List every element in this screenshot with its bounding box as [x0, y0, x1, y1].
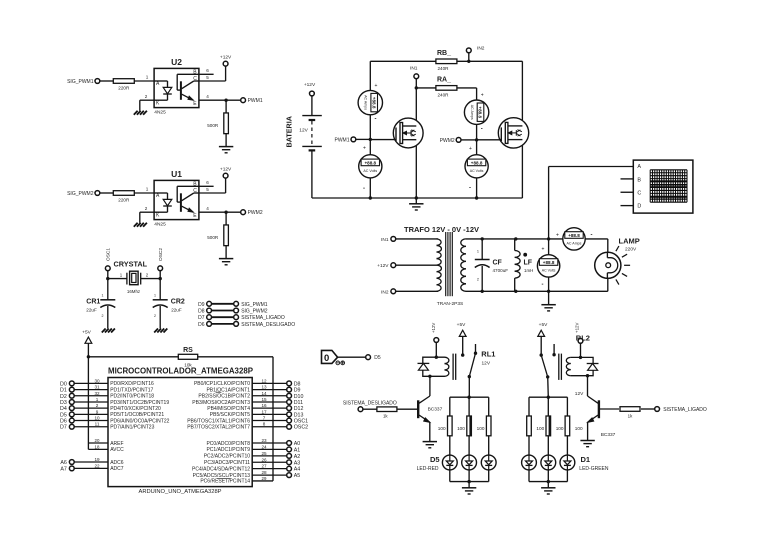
svg-text:A6: A6	[60, 460, 67, 466]
svg-text:C: C	[637, 190, 641, 196]
svg-text:PD4/T0/XCK/PCINT20: PD4/T0/XCK/PCINT20	[110, 406, 161, 412]
svg-text:+12V: +12V	[575, 323, 580, 333]
svg-text:-: -	[375, 117, 377, 123]
svg-text:20: 20	[95, 438, 100, 443]
svg-text:CF: CF	[493, 260, 503, 267]
svg-text:LED-RED: LED-RED	[417, 466, 439, 472]
svg-text:4N25: 4N25	[154, 222, 166, 228]
svg-text:MICROCONTROLADOR_ATMEGA328P: MICROCONTROLADOR_ATMEGA328P	[108, 366, 254, 375]
svg-text:+: +	[556, 233, 559, 239]
svg-text:AC Amps: AC Amps	[567, 242, 582, 246]
svg-text:D7: D7	[198, 315, 205, 321]
svg-text:PC2/ADC2/PCINT10: PC2/ADC2/PCINT10	[204, 454, 251, 460]
svg-text:22uF: 22uF	[171, 308, 182, 313]
svg-text:PC0/ADC0/PCINT8: PC0/ADC0/PCINT8	[206, 441, 250, 447]
svg-text:IN1: IN1	[410, 66, 418, 72]
svg-text:1: 1	[154, 294, 156, 298]
svg-text:OSC1: OSC1	[294, 419, 308, 425]
svg-text:PB4/MISO/PCINT4: PB4/MISO/PCINT4	[207, 406, 250, 412]
svg-text:PC6/RESET/PCINT14: PC6/RESET/PCINT14	[200, 479, 250, 485]
svg-text:PB7/TOSC2/XTAL2/PCINT7: PB7/TOSC2/XTAL2/PCINT7	[187, 425, 250, 431]
svg-text:4: 4	[206, 94, 209, 99]
svg-text:0: 0	[324, 353, 329, 364]
svg-text:D1: D1	[60, 388, 67, 394]
svg-text:AC Amps: AC Amps	[364, 95, 368, 110]
svg-text:17: 17	[261, 409, 267, 414]
svg-text:2: 2	[477, 278, 479, 282]
svg-text:D6: D6	[198, 322, 205, 328]
svg-text:1k: 1k	[628, 413, 633, 418]
svg-text:240R: 240R	[438, 92, 450, 97]
svg-text:D9: D9	[294, 388, 301, 394]
svg-text:A4: A4	[294, 467, 301, 473]
svg-text:PB1/OC1A/PCINT1: PB1/OC1A/PCINT1	[206, 387, 250, 393]
svg-text:100: 100	[438, 426, 446, 431]
svg-text:SISTEMA_DESLIGADO: SISTEMA_DESLIGADO	[241, 322, 295, 328]
svg-text:ADC7: ADC7	[110, 466, 124, 472]
svg-text:PB2/SS/OC1B/PCINT2: PB2/SS/OC1B/PCINT2	[198, 394, 250, 400]
svg-text:22uF: 22uF	[86, 308, 97, 313]
svg-text:+: +	[542, 247, 545, 253]
svg-text:23: 23	[261, 438, 267, 443]
svg-text:U2: U2	[171, 57, 182, 67]
svg-text:CR2: CR2	[171, 299, 185, 306]
svg-text:PD0/RXD/PCINT16: PD0/RXD/PCINT16	[110, 381, 154, 387]
svg-text:PD5/T1/OC0B/PCINT21: PD5/T1/OC0B/PCINT21	[110, 412, 164, 418]
svg-text:LF: LF	[524, 260, 533, 267]
svg-text:+88.8: +88.8	[568, 233, 580, 238]
svg-text:PWM1: PWM1	[335, 137, 350, 143]
svg-text:22: 22	[94, 463, 100, 468]
svg-text:2: 2	[154, 314, 156, 318]
svg-text:A3: A3	[294, 460, 301, 466]
svg-text:D9: D9	[198, 302, 205, 308]
svg-text:A5: A5	[294, 473, 301, 479]
svg-text:OSC2: OSC2	[294, 425, 308, 431]
svg-text:220R: 220R	[118, 198, 130, 203]
svg-text:+12V: +12V	[220, 55, 232, 61]
svg-text:16Mhz: 16Mhz	[127, 289, 140, 294]
svg-text:25: 25	[261, 451, 267, 456]
svg-text:D7: D7	[60, 425, 67, 431]
svg-text:+88.8: +88.8	[364, 160, 376, 165]
svg-text:PC1/ADC1/PCINT9: PC1/ADC1/PCINT9	[206, 447, 250, 453]
svg-text:1k: 1k	[383, 414, 388, 419]
svg-text:100: 100	[457, 426, 465, 431]
svg-text:19: 19	[94, 457, 100, 462]
svg-text:BC337: BC337	[428, 406, 443, 412]
svg-text:A2: A2	[294, 454, 301, 460]
svg-text:RA_: RA_	[437, 77, 451, 84]
svg-text:32: 32	[94, 391, 100, 396]
svg-text:+12V: +12V	[220, 167, 232, 173]
svg-text:D5: D5	[374, 355, 381, 361]
svg-text:+: +	[363, 146, 366, 152]
svg-text:+: +	[481, 93, 484, 99]
svg-text:+88.8: +88.8	[478, 106, 483, 118]
svg-text:11: 11	[95, 422, 100, 427]
svg-text:PC3/ADC3/PCINT11: PC3/ADC3/PCINT11	[204, 460, 250, 466]
svg-text:9: 9	[96, 409, 99, 414]
svg-text:4: 4	[206, 206, 209, 211]
svg-text:PB6/TOSC1/XTAL1/PCINT6: PB6/TOSC1/XTAL1/PCINT6	[187, 418, 250, 424]
svg-text:D5: D5	[60, 412, 67, 418]
svg-text:SIG_PWM1: SIG_PWM1	[241, 302, 268, 308]
svg-text:1: 1	[146, 75, 149, 80]
svg-text:+: +	[469, 146, 472, 152]
svg-text:IN2: IN2	[381, 289, 389, 295]
svg-text:D10: D10	[294, 394, 304, 400]
svg-text:LAMP: LAMP	[619, 237, 640, 246]
svg-text:PB0/ICP1/CLKO/PCINT0: PB0/ICP1/CLKO/PCINT0	[194, 381, 250, 387]
svg-text:+5V: +5V	[539, 322, 548, 328]
svg-text:2: 2	[145, 94, 148, 99]
svg-text:-: -	[481, 127, 483, 133]
svg-text:26: 26	[261, 457, 267, 462]
svg-text:D4: D4	[60, 406, 67, 412]
svg-text:IN1: IN1	[381, 237, 389, 243]
svg-text:10: 10	[94, 416, 100, 421]
svg-text:+12V: +12V	[304, 82, 316, 88]
svg-text:31: 31	[94, 385, 100, 390]
svg-text:RL1: RL1	[481, 350, 495, 359]
svg-text:2: 2	[96, 403, 99, 408]
svg-text:PD2/INT0/PCINT18: PD2/INT0/PCINT18	[110, 394, 154, 400]
svg-text:4700uF: 4700uF	[493, 268, 509, 273]
svg-text:U1: U1	[171, 169, 182, 179]
svg-text:2: 2	[102, 314, 104, 318]
svg-text:D3: D3	[60, 400, 67, 406]
svg-text:5: 5	[206, 187, 209, 192]
svg-text:6: 6	[206, 68, 209, 73]
svg-text:+12V: +12V	[431, 323, 436, 333]
svg-text:220V: 220V	[625, 247, 637, 253]
svg-text:12V: 12V	[482, 360, 491, 366]
svg-text:1: 1	[146, 187, 149, 192]
svg-text:6: 6	[206, 180, 209, 185]
svg-text:A0: A0	[294, 441, 301, 447]
svg-text:A1: A1	[294, 447, 301, 453]
svg-text:SIG_PWM2: SIG_PWM2	[67, 191, 94, 197]
svg-text:1: 1	[477, 250, 479, 254]
svg-text:12: 12	[261, 378, 267, 383]
svg-text:PB3/MOSI/OC2A/PCINT3: PB3/MOSI/OC2A/PCINT3	[192, 400, 250, 406]
svg-text:D0: D0	[60, 381, 67, 387]
svg-text:ADC6: ADC6	[110, 460, 124, 466]
svg-text:D5: D5	[430, 455, 440, 464]
svg-text:240R: 240R	[438, 66, 450, 71]
svg-text:CR1: CR1	[86, 299, 100, 306]
svg-text:500R: 500R	[207, 123, 219, 128]
svg-text:AC Amps: AC Amps	[470, 105, 474, 120]
svg-text:RS: RS	[183, 347, 193, 354]
svg-text:29: 29	[262, 476, 267, 481]
svg-text:PWM1: PWM1	[248, 98, 263, 104]
svg-text:PWM2: PWM2	[440, 138, 455, 144]
svg-text:OSC2: OSC2	[158, 248, 164, 261]
svg-text:SIG_PWM2: SIG_PWM2	[241, 309, 268, 315]
svg-text:AVCC: AVCC	[110, 447, 124, 453]
svg-text:+88.8: +88.8	[543, 260, 555, 265]
svg-text:PD6/AIN0/OC0A/PCINT22: PD6/AIN0/OC0A/PCINT22	[110, 418, 169, 424]
svg-text:12V: 12V	[575, 391, 584, 397]
svg-text:PD7/AIN1/PCINT23: PD7/AIN1/PCINT23	[110, 425, 154, 431]
svg-text:TRAN-2P3S: TRAN-2P3S	[437, 301, 463, 307]
svg-text:TRAFO 12V - 0V -12V: TRAFO 12V - 0V -12V	[404, 225, 479, 234]
svg-text:+12V: +12V	[377, 263, 389, 269]
svg-text:A: A	[637, 164, 641, 170]
svg-text:15: 15	[261, 397, 267, 402]
svg-text:D2: D2	[60, 394, 67, 400]
svg-text:SISTEMA_DESLIGADO: SISTEMA_DESLIGADO	[343, 401, 397, 407]
svg-text:-: -	[469, 186, 471, 192]
svg-text:AC Volts: AC Volts	[542, 269, 556, 273]
svg-text:D8: D8	[294, 381, 301, 387]
svg-text:1: 1	[96, 397, 99, 402]
svg-text:PB5/SCK/PCINT5: PB5/SCK/PCINT5	[210, 412, 251, 418]
svg-text:100: 100	[477, 426, 485, 431]
svg-text:12V: 12V	[299, 127, 308, 133]
svg-text:AC Volts: AC Volts	[363, 169, 377, 173]
svg-text:+88.8: +88.8	[471, 160, 483, 165]
svg-text:OSC1: OSC1	[106, 248, 112, 261]
svg-text:16: 16	[261, 403, 267, 408]
svg-text:100: 100	[556, 426, 564, 431]
svg-text:-: -	[591, 233, 593, 239]
svg-text:ARDUINO_UNO_ATMEGA328P: ARDUINO_UNO_ATMEGA328P	[139, 489, 222, 495]
svg-text:4N25: 4N25	[154, 110, 166, 116]
svg-text:PD1/TXD/PCINT17: PD1/TXD/PCINT17	[110, 387, 153, 393]
svg-text:BATERIA: BATERIA	[285, 116, 294, 147]
svg-text:SISTEMA_LIGADO: SISTEMA_LIGADO	[663, 407, 707, 413]
svg-text:100: 100	[536, 426, 544, 431]
svg-text:SISTEMA_LIGADO: SISTEMA_LIGADO	[241, 315, 285, 321]
svg-text:2: 2	[145, 206, 148, 211]
svg-text:1: 1	[102, 294, 104, 298]
svg-text:AC Volts: AC Volts	[470, 169, 484, 173]
svg-text:14: 14	[261, 391, 267, 396]
svg-text:CRYSTAL: CRYSTAL	[114, 259, 148, 268]
svg-text:D12: D12	[294, 406, 304, 412]
svg-text:5: 5	[206, 75, 209, 80]
svg-text:A7: A7	[60, 466, 67, 472]
svg-text:D8: D8	[198, 309, 205, 315]
svg-text:IN2: IN2	[477, 46, 485, 52]
svg-text:7: 7	[263, 416, 266, 421]
svg-text:100: 100	[575, 426, 583, 431]
svg-text:+5V: +5V	[457, 322, 466, 328]
svg-text:220R: 220R	[118, 86, 130, 91]
svg-text:B: B	[637, 177, 641, 183]
svg-text:LED-GREEN: LED-GREEN	[579, 466, 609, 472]
svg-text:PC4/ADC4/SDA/PCINT12: PC4/ADC4/SDA/PCINT12	[192, 466, 250, 472]
svg-text:27: 27	[261, 464, 267, 469]
svg-text:-: -	[542, 282, 544, 288]
svg-text:24: 24	[261, 444, 267, 449]
svg-text:+88.8: +88.8	[371, 97, 376, 109]
svg-text:PWM2: PWM2	[248, 210, 263, 216]
svg-text:D: D	[637, 204, 641, 210]
svg-text:SIG_PWM1: SIG_PWM1	[67, 79, 94, 85]
svg-text:8: 8	[263, 422, 266, 427]
svg-text:28: 28	[261, 470, 267, 475]
svg-text:AREF: AREF	[110, 441, 123, 447]
svg-text:+5V: +5V	[82, 330, 91, 336]
svg-text:RB_: RB_	[437, 50, 451, 57]
svg-text:D6: D6	[60, 419, 67, 425]
svg-text:BC337: BC337	[601, 432, 616, 438]
svg-text:PD3/INT1/OC2B/PCINT19: PD3/INT1/OC2B/PCINT19	[110, 400, 169, 406]
svg-text:D1: D1	[581, 455, 591, 464]
svg-text:13: 13	[261, 385, 267, 390]
svg-text:500R: 500R	[207, 235, 219, 240]
svg-text:18: 18	[95, 444, 100, 449]
svg-text:D11: D11	[294, 400, 303, 406]
svg-text:1mH: 1mH	[524, 268, 533, 273]
svg-text:30: 30	[94, 378, 100, 383]
svg-text:+: +	[375, 83, 378, 89]
svg-text:-: -	[363, 186, 365, 192]
svg-text:D13: D13	[294, 412, 304, 418]
